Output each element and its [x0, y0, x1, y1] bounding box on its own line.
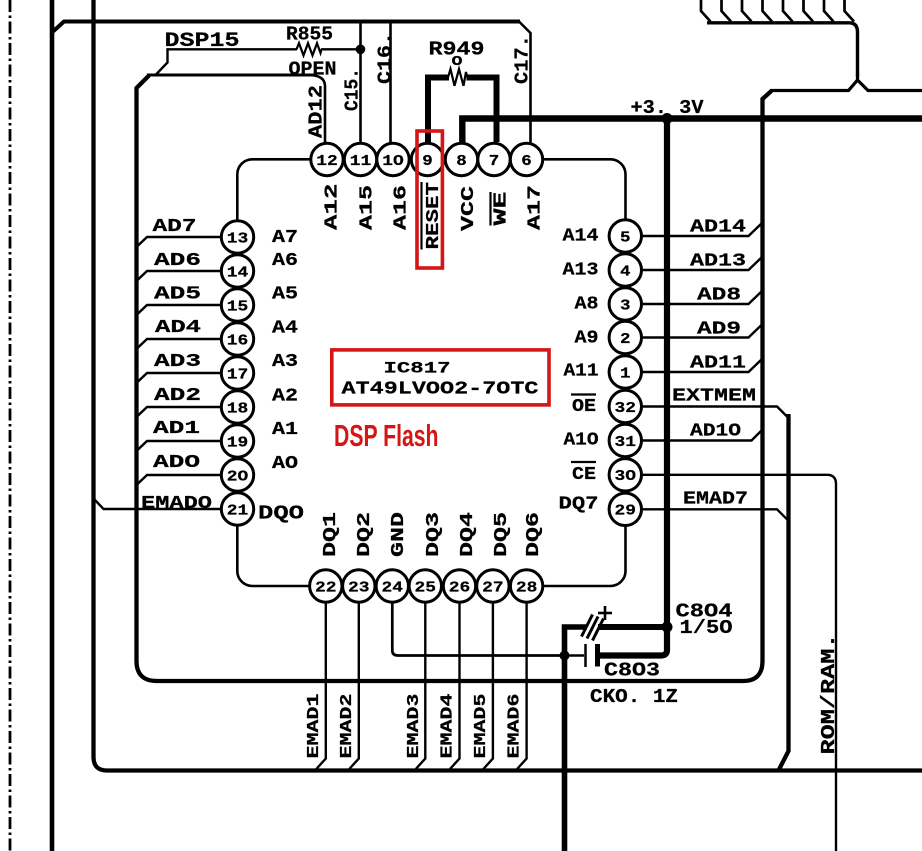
pin 8	[445, 143, 477, 175]
svg-text:16: 16	[227, 332, 249, 349]
svg-text:AT49LVOO2-7OTC: AT49LVOO2-7OTC	[342, 380, 539, 400]
svg-text:A11: A11	[564, 362, 599, 382]
svg-text:CE: CE	[572, 465, 596, 485]
wires AD7-AD0 taps	[137, 237, 222, 247]
svg-text:21: 21	[227, 502, 249, 519]
junction dot GND node	[560, 651, 570, 661]
svg-text:OE: OE	[572, 397, 596, 417]
svg-text:4: 4	[620, 263, 631, 280]
pin 2O	[221, 459, 253, 491]
pin 25	[409, 570, 441, 602]
pin 14	[221, 255, 253, 287]
wire C15 pin11 vertical	[359, 22, 362, 146]
svg-text:A12: A12	[323, 184, 343, 231]
svg-text:A2: A2	[272, 386, 298, 406]
wire C803 left	[566, 654, 584, 657]
svg-text:AD14: AD14	[690, 218, 746, 238]
svg-text:DQ4: DQ4	[458, 512, 478, 557]
svg-text:VCC: VCC	[459, 186, 479, 231]
svg-text:AD9: AD9	[697, 320, 741, 340]
wire EMAD7 pin29	[641, 509, 788, 520]
wires AD14 AD13 AD8 AD9 AD11 taps	[641, 223, 762, 236]
svg-text:1: 1	[620, 365, 631, 382]
bus split right branch	[858, 73, 922, 91]
pin 7	[478, 143, 510, 175]
pin 9	[411, 143, 443, 175]
wire GND pin24	[392, 601, 561, 656]
svg-text:31: 31	[615, 434, 637, 451]
svg-text:12: 12	[316, 153, 338, 170]
pin 31	[609, 424, 641, 456]
OE overline	[571, 393, 596, 395]
svg-text:23: 23	[348, 579, 370, 596]
wire EXTMEM pin32	[641, 407, 788, 418]
svg-text:26: 26	[449, 579, 471, 596]
svg-text:13: 13	[227, 230, 249, 247]
svg-text:32: 32	[615, 400, 637, 417]
red highlight box IC817	[332, 350, 549, 405]
capacitor C803 right plate bold	[595, 644, 600, 667]
svg-text:A6: A6	[272, 251, 298, 271]
svg-text:A15: A15	[358, 185, 378, 230]
WE overline	[489, 192, 491, 226]
svg-text:A3: A3	[272, 352, 298, 372]
svg-text:24: 24	[382, 579, 404, 596]
svg-text:14: 14	[227, 264, 249, 281]
svg-text:DQ6: DQ6	[524, 512, 544, 557]
page border dash-dot line	[9, 0, 12, 851]
pin 24	[376, 570, 408, 602]
svg-text:DQ1: DQ1	[321, 512, 341, 557]
svg-text:28: 28	[516, 579, 538, 596]
resistor R949 bold loop left leg	[428, 78, 449, 145]
EXTMEM bus vertical	[779, 414, 789, 770]
wire C16 pin10 vertical	[389, 22, 392, 146]
pin 21	[221, 493, 253, 525]
pin 26	[443, 570, 475, 602]
svg-text:DQO: DQO	[258, 503, 304, 525]
pin 19	[221, 425, 253, 457]
svg-text:1O: 1O	[382, 153, 404, 170]
pin 16	[221, 323, 253, 355]
resistor R855	[297, 43, 322, 55]
svg-text:1/5O: 1/5O	[680, 617, 733, 639]
svg-text:A14: A14	[563, 227, 599, 247]
svg-text:A4: A4	[272, 319, 298, 339]
pin 3O	[609, 459, 641, 491]
svg-text:ROM/RAM.: ROM/RAM.	[818, 634, 840, 755]
junction dot R855/C15 node	[356, 45, 366, 55]
pin 1O	[377, 143, 409, 175]
svg-text:15: 15	[227, 298, 249, 315]
bold +3.3V drop to capacitors	[598, 119, 667, 656]
svg-text:AD13: AD13	[690, 252, 746, 272]
svg-text:DSP Flash: DSP Flash	[334, 418, 439, 453]
svg-text:A17: A17	[526, 185, 546, 230]
red highlight box RESET pin 9	[417, 131, 442, 268]
wire CE pin30 ROM/RAM net	[641, 475, 836, 851]
svg-text:C15.: C15.	[342, 68, 364, 111]
svg-text:C17.: C17.	[512, 35, 534, 84]
pin 28	[510, 570, 542, 602]
svg-text:AD1: AD1	[153, 419, 200, 439]
svg-text:3: 3	[620, 297, 631, 314]
svg-text:C8O3: C8O3	[604, 660, 660, 682]
svg-text:DQ5: DQ5	[492, 512, 512, 557]
bus bar top right	[707, 23, 858, 77]
svg-text:AD4: AD4	[155, 318, 201, 338]
wires EMAD1-EMAD6 drops	[316, 601, 326, 769]
svg-text:18: 18	[227, 400, 249, 417]
svg-text:AD6: AD6	[154, 251, 201, 271]
junction dot C804 node	[662, 622, 673, 633]
svg-text:A7: A7	[272, 228, 298, 248]
+3.3V power rail bold	[462, 119, 922, 144]
svg-text:17: 17	[227, 366, 249, 383]
pin 4	[609, 254, 641, 286]
svg-text:25: 25	[415, 579, 437, 596]
svg-text:9: 9	[422, 153, 433, 170]
C804 plus sign	[598, 606, 612, 620]
bus split left branch to AD bus	[770, 80, 858, 91]
capacitor C804 hatched plate	[582, 615, 604, 641]
svg-text:WE: WE	[492, 191, 512, 225]
bold wire C804 left leg to GND and down to page bottom	[565, 627, 588, 851]
svg-text:CKO. 1Z: CKO. 1Z	[590, 686, 678, 708]
bus entry stubs top right	[701, 0, 711, 22]
svg-text:AD7: AD7	[153, 217, 197, 237]
CE overline	[571, 461, 596, 463]
wire EMAD0	[95, 500, 223, 510]
wire C17 pin6 drop	[519, 22, 531, 146]
pin 2	[609, 321, 641, 353]
svg-text:A8: A8	[575, 295, 599, 315]
svg-text:DSP15: DSP15	[165, 30, 240, 53]
svg-text:EMAD2: EMAD2	[338, 694, 357, 759]
svg-text:A5: A5	[272, 285, 298, 305]
svg-text:A13: A13	[563, 261, 599, 281]
svg-text:AO: AO	[272, 454, 298, 474]
svg-text:7: 7	[489, 153, 500, 170]
svg-text:3O: 3O	[615, 468, 637, 485]
wire DSP15	[156, 49, 298, 75]
pin 3	[609, 288, 641, 320]
pin 1	[609, 356, 641, 388]
IC817 chip body outline	[237, 159, 625, 586]
svg-text:EMADO: EMADO	[141, 494, 212, 514]
pin 5	[609, 220, 641, 252]
svg-text:22: 22	[315, 579, 337, 596]
svg-text:A9: A9	[575, 329, 599, 349]
svg-text:EMAD4: EMAD4	[439, 694, 458, 759]
wire top horizontal net	[53, 22, 520, 32]
wire AD12 bus segment	[147, 74, 317, 77]
svg-text:EXTMEM: EXTMEM	[672, 387, 756, 407]
svg-text:19: 19	[227, 434, 249, 451]
svg-text:DQ3: DQ3	[424, 512, 444, 557]
pin 11	[344, 143, 376, 175]
svg-text:6: 6	[521, 153, 532, 170]
svg-text:ADO: ADO	[153, 453, 200, 473]
svg-text:AD3: AD3	[154, 352, 201, 372]
junction dot +3.3V rail	[662, 113, 673, 124]
bold wire C804 right to +3.3V drop	[598, 624, 664, 630]
pin 29	[609, 493, 641, 525]
svg-text:DQ7: DQ7	[559, 494, 599, 514]
svg-text:EMAD3: EMAD3	[405, 694, 424, 759]
svg-text:AD11: AD11	[690, 354, 746, 374]
svg-text:IC817: IC817	[384, 359, 451, 377]
svg-text:AD1O: AD1O	[690, 422, 741, 442]
svg-text:EMAD6: EMAD6	[506, 694, 525, 759]
svg-text:2: 2	[620, 331, 631, 348]
svg-text:27: 27	[482, 579, 504, 596]
pin 6	[510, 143, 542, 175]
pin 27	[477, 570, 509, 602]
pin 12	[311, 143, 343, 175]
RESET overline	[420, 182, 422, 250]
svg-text:A1O: A1O	[564, 431, 599, 451]
svg-text:O: O	[452, 54, 463, 70]
AD bus ring (left vertical, bottom horizontal, right vertical)	[137, 76, 772, 682]
svg-text:R855: R855	[286, 24, 333, 46]
pin 18	[221, 391, 253, 423]
resistor R949 zigzag	[448, 69, 468, 86]
svg-text:EMAD7: EMAD7	[683, 490, 748, 510]
svg-text:AD8: AD8	[697, 286, 741, 306]
pin 17	[221, 357, 253, 389]
svg-text:A16: A16	[392, 185, 412, 230]
svg-text:DQ2: DQ2	[355, 512, 375, 557]
svg-text:AD5: AD5	[154, 284, 201, 304]
svg-text:GND: GND	[389, 512, 409, 557]
svg-text:11: 11	[350, 153, 372, 170]
wire R855 to pin11 net	[321, 48, 362, 50]
svg-text:2O: 2O	[227, 468, 249, 485]
wire pin12 AD12 drop	[308, 75, 325, 145]
capacitor C803 left plate	[584, 644, 587, 667]
svg-text:EMAD1: EMAD1	[305, 694, 324, 759]
resistor R949 bold loop right leg to pin7	[467, 78, 497, 143]
svg-text:A1: A1	[272, 420, 298, 440]
pin 32	[609, 390, 641, 422]
wire AD10 pin31 tap	[641, 430, 762, 441]
svg-text:EMAD5: EMAD5	[472, 694, 491, 759]
svg-text:AD2: AD2	[154, 386, 201, 406]
pin 23	[343, 570, 375, 602]
svg-text:C16.: C16.	[375, 32, 397, 84]
svg-text:8: 8	[456, 153, 467, 170]
svg-text:29: 29	[615, 503, 637, 520]
pin 15	[221, 289, 253, 321]
pin 13	[221, 221, 253, 253]
svg-text:OPEN: OPEN	[289, 59, 337, 81]
svg-text:AD12: AD12	[306, 85, 328, 138]
svg-text:5: 5	[620, 229, 631, 246]
bus line vertical left outer	[50, 0, 55, 851]
pin 22	[310, 570, 342, 602]
